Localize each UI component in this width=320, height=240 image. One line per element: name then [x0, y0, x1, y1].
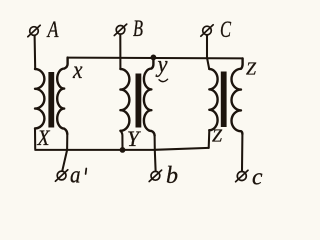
wire T1 primary bottom to node X	[34, 128, 36, 148]
transformer T2 secondary winding (right)	[144, 57, 155, 135]
svg-text:a: a	[70, 162, 81, 188]
transformer T3 primary winding (left)	[209, 69, 217, 130]
svg-text:b: b	[166, 163, 178, 189]
terminal c	[236, 170, 248, 181]
wire A to T1 primary	[34, 36, 37, 69]
wire T2 secondary bottom to terminal b (crosses bottom bus)	[155, 136, 156, 171]
wire T2 primary bottom to bottom bus junction	[120, 131, 122, 150]
junction dot top bus / T2 secondary	[151, 55, 157, 61]
svg-text:B: B	[133, 16, 143, 41]
wire T1 secondary bottom to terminal a'	[62, 134, 67, 170]
top bus wire (x-y-z common node)	[68, 57, 243, 60]
core of transformer T3	[221, 72, 227, 128]
junction dot bottom bus / T2 primary	[120, 147, 126, 153]
terminal A	[28, 25, 40, 36]
wire T3 primary bottom to bottom bus end	[208, 130, 211, 148]
svg-text:X: X	[37, 125, 51, 150]
wire T3 secondary bottom to terminal c	[241, 134, 243, 171]
svg-text:A: A	[46, 17, 59, 42]
svg-text:c: c	[252, 165, 263, 191]
svg-text:Z: Z	[246, 59, 257, 79]
breve mark under y	[159, 79, 168, 81]
svg-text:C: C	[220, 17, 231, 42]
svg-text:Z: Z	[212, 126, 223, 146]
terminal b	[149, 170, 161, 181]
bottom bus wire (X-Y-Z neutral)	[35, 148, 209, 150]
apostrophe of a'	[85, 169, 88, 175]
transformer T2 primary winding (left)	[120, 69, 129, 131]
core of transformer T2	[136, 74, 142, 128]
transformer T3 secondary winding (right)	[232, 58, 243, 134]
transformer T1 secondary winding (right)	[57, 58, 67, 134]
svg-text:x: x	[72, 57, 82, 84]
terminal B	[114, 24, 126, 35]
terminal a'	[55, 170, 67, 181]
wire B to T2 primary (crosses top bus, no connection)	[119, 35, 121, 69]
svg-text:Y: Y	[127, 126, 142, 151]
terminal C	[201, 25, 213, 36]
svg-text:y: y	[156, 52, 168, 78]
wire C to T3 primary (crosses top bus, no connection)	[207, 35, 209, 69]
core of transformer T1	[48, 72, 54, 128]
transformer T1 primary winding (left)	[35, 69, 44, 128]
